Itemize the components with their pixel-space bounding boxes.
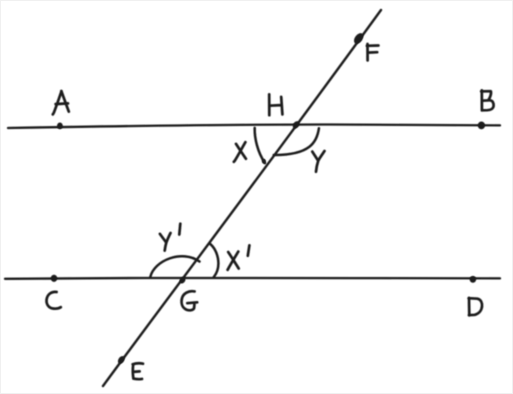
point A dot (57, 123, 63, 130)
line CD (bottom parallel line) (5, 278, 500, 279)
label H (269, 94, 282, 115)
label Y' (160, 224, 180, 251)
pen blob at end of arc X (262, 159, 266, 164)
arc angle Y at H (274, 128, 319, 155)
point H dot (291, 120, 300, 130)
point E dot (116, 355, 126, 365)
label C (47, 292, 61, 309)
point C dot (51, 275, 57, 282)
label A (53, 91, 69, 114)
arc angle X at H (255, 128, 265, 163)
label E (133, 363, 143, 379)
label Y (312, 151, 324, 172)
label X' (228, 245, 250, 269)
transversal EF (103, 10, 381, 386)
line AB (top parallel line) (8, 124, 500, 128)
label F (367, 44, 379, 60)
point D dot (470, 276, 477, 283)
label X (234, 142, 246, 162)
point F dot (352, 31, 365, 45)
point G dot (178, 276, 186, 285)
arc angle Y' at G (150, 256, 199, 277)
label B (481, 90, 493, 110)
label G (182, 291, 198, 310)
label D (469, 298, 482, 316)
point B dot (478, 122, 485, 130)
arc angle X' at G (209, 243, 218, 277)
